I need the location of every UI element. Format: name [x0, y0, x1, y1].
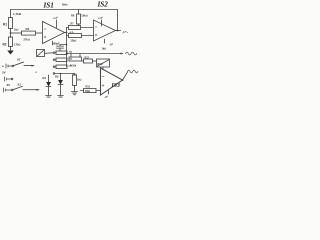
svg-text:R11: R11 [73, 73, 78, 76]
svg-text:12kΩ: 12kΩ [71, 40, 77, 43]
svg-text:D2: D2 [55, 75, 59, 79]
svg-text:R1: R1 [3, 23, 7, 27]
svg-text:o: o [36, 71, 38, 74]
svg-text:15kΩ: 15kΩ [81, 14, 87, 18]
resistor R13 to IS3 input [84, 89, 97, 93]
svg-text:1MΩ: 1MΩ [85, 90, 90, 93]
svg-text:10k: 10k [69, 51, 73, 53]
battery B3 [4, 88, 12, 92]
node bus out [66, 53, 68, 55]
arrow wire S1 [32, 65, 36, 67]
node IS1 output [66, 32, 68, 34]
svg-text:1kΩ: 1kΩ [102, 47, 107, 50]
wire IS1 output [65, 32, 67, 34]
svg-text:S1: S1 [17, 58, 21, 62]
capacitor C1 680pF plates [57, 46, 64, 48]
svg-text:IS1: IS1 [43, 2, 54, 10]
battery B2 terminal stub [5, 77, 12, 81]
svg-text:170Ω: 170Ω [14, 43, 20, 47]
IS2 -Ub supply tick [104, 39, 106, 43]
svg-text:27kΩ: 27kΩ [24, 37, 30, 41]
svg-text:IS2: IS2 [97, 1, 109, 9]
svg-text:680pF: 680pF [53, 43, 61, 46]
svg-text:P 10k: P 10k [70, 65, 77, 68]
svg-text:-U³: -U³ [109, 43, 113, 47]
IS1 -Ub supply tick [52, 41, 54, 44]
node D2 top [60, 73, 62, 75]
ground under R11 [72, 92, 78, 95]
resistor Ra range top [56, 51, 67, 55]
switch S3 blade [37, 50, 53, 56]
svg-text:R12: R12 [85, 56, 90, 59]
svg-text:1kΩ: 1kΩ [14, 29, 19, 32]
ground under R2 [7, 51, 14, 55]
wire output bus vertical [66, 33, 68, 67]
resistor R12 to RV2 [82, 60, 84, 62]
svg-text:1kΩ: 1kΩ [77, 79, 82, 82]
resistor R1 [9, 18, 13, 29]
resistor R4 [22, 31, 36, 35]
contact b [55, 59, 56, 61]
svg-text:R4: R4 [26, 27, 30, 31]
svg-text:R2: R2 [3, 43, 7, 47]
op-amp IS1 [43, 22, 65, 44]
wire long output to sine terminal [67, 53, 121, 55]
wire capacitor to bus [60, 45, 67, 52]
potentiometer RV2 box [97, 59, 110, 67]
wire output node up to R7 branch [66, 28, 68, 33]
svg-text:IS3: IS3 [111, 83, 120, 89]
resistor Rb range mid [56, 58, 67, 62]
wire R4 to IS1 inverting input [36, 32, 43, 34]
svg-text:5kHz: 5kHz [62, 4, 68, 7]
svg-text:S2: S2 [18, 82, 22, 86]
op-amp IS2 [94, 20, 116, 41]
contact a [55, 52, 56, 54]
svg-text:R6: R6 [71, 14, 75, 18]
IS2 +Ub supply tick [101, 20, 103, 26]
sine squiggle terminal lower [128, 70, 138, 73]
potentiometer P1 [71, 54, 80, 58]
resistor R7 in series to IS2 upper input [69, 26, 81, 30]
sine squiggle terminal upper [121, 53, 124, 55]
svg-text:2V: 2V [7, 83, 11, 87]
svg-text:+U³: +U³ [53, 16, 58, 20]
svg-text:RV2: RV2 [97, 62, 103, 66]
resistor R6 vertical from top rail [77, 14, 81, 24]
IS1 +Ub supply tick [56, 20, 58, 28]
switch S1 [12, 65, 14, 67]
ground under D2 [58, 96, 64, 98]
wire R11 to ground [74, 86, 76, 92]
wire contact row bottom [53, 73, 55, 75]
svg-text:2V: 2V [2, 71, 6, 75]
resistor R8 lower branch [69, 34, 82, 38]
diode D2 [60, 74, 62, 96]
wire R2 to ground [10, 47, 12, 51]
svg-text:1,7kΩ: 1,7kΩ [13, 12, 22, 16]
svg-text:D1: D1 [43, 76, 47, 80]
node IS2 output [117, 30, 119, 32]
svg-text:+U³: +U³ [98, 16, 103, 20]
wire IS3 output [123, 72, 128, 80]
wire IS2 output [116, 30, 121, 32]
node IS3 output [122, 79, 124, 81]
svg-text:„U“₂: „U“₂ [122, 30, 129, 34]
svg-text:+: + [2, 65, 4, 69]
switch S3 selector box [37, 50, 45, 57]
wire RV2 to IS3 [102, 67, 104, 71]
node cap bus [66, 44, 68, 46]
ground under D1 [46, 96, 52, 98]
op-amp IS3 [101, 68, 123, 95]
diode D1 [48, 75, 50, 96]
resistor Rc range bottom [56, 65, 67, 69]
IS3 -Ub supply tick [108, 90, 110, 94]
contact c [55, 66, 56, 68]
arrow wire S2 [37, 89, 41, 91]
switch S2 [12, 89, 14, 91]
svg-text:R13: R13 [86, 86, 91, 89]
resistor R2 [9, 37, 13, 47]
node A junction R1 R2 R4 [10, 32, 12, 34]
svg-text:-U³: -U³ [104, 95, 108, 99]
wire top feedback loop from R1 top to IS2 output [11, 10, 118, 31]
resistor R11 vertical [73, 75, 77, 86]
